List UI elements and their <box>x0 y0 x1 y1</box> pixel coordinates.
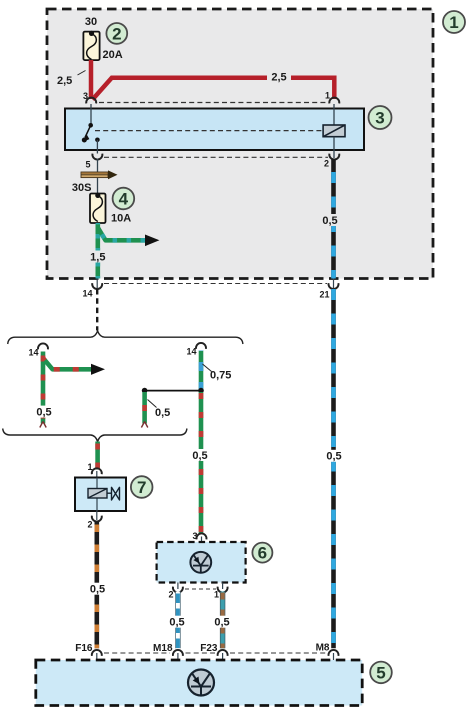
callout circle 4 <box>113 188 135 210</box>
pin 1 connector arc <box>325 91 339 104</box>
svg-text:3: 3 <box>375 109 384 128</box>
svg-text:5: 5 <box>376 663 385 682</box>
label 2,5 left with pointer <box>57 71 86 88</box>
junction bar with node dots <box>142 388 204 394</box>
label 0,5 on black-blue wire inside box U1 <box>321 214 340 227</box>
label 0,75 with pointer <box>203 364 232 382</box>
label 0,5 left branch <box>35 406 54 419</box>
label 1,5 <box>89 251 108 264</box>
svg-text:0,5: 0,5 <box>90 584 105 596</box>
wire blue-white 0,5 to M18 <box>175 592 181 649</box>
svg-text:0,5: 0,5 <box>326 451 341 463</box>
pin 21 connector arc on box U1 <box>319 279 338 300</box>
svg-text:14: 14 <box>82 289 92 299</box>
svg-text:2: 2 <box>112 24 121 43</box>
dashed rail pin2 to pin1 box 6 <box>185 588 216 590</box>
label 0,5 on wire to box 6 <box>191 449 211 462</box>
wire teal-brown 0,5 to F23 <box>220 592 225 649</box>
svg-text:2,5: 2,5 <box>57 75 72 87</box>
merge brace lower <box>3 429 187 442</box>
svg-text:30: 30 <box>85 16 97 28</box>
svg-text:30S: 30S <box>72 182 92 194</box>
pin 3 connector arc lamp box 6 <box>192 531 206 543</box>
wire end fork left <box>40 422 46 428</box>
svg-text:4: 4 <box>119 190 129 209</box>
label 0,5 middle stub with pointer <box>148 400 171 420</box>
wire-destination arrow tan hatched <box>81 170 118 179</box>
pin 14 connector arc on box U1 <box>82 279 102 299</box>
relay coil <box>323 104 345 158</box>
connector F23 <box>200 643 227 661</box>
svg-text:21: 21 <box>319 290 329 300</box>
svg-text:0,75: 0,75 <box>210 370 231 382</box>
relay internal dashed line <box>95 130 322 132</box>
box U1 mounting-block dashed enclosure <box>47 9 433 279</box>
lamp symbol box 6 <box>190 552 211 573</box>
pin 14 left branch connector arc <box>28 343 48 357</box>
connector M8 <box>316 643 339 661</box>
wire red 2,5 from fuse F2 to relay pins 3 and 1 <box>91 60 334 100</box>
svg-text:6: 6 <box>258 544 267 563</box>
callout circle 6 <box>252 543 272 563</box>
wire green-teal branch to arrow <box>98 228 146 241</box>
svg-text:M8: M8 <box>316 643 330 654</box>
wire green-red 0,5 left branch <box>41 352 46 424</box>
callout circle 2 <box>106 23 127 44</box>
svg-text:14: 14 <box>186 347 196 357</box>
svg-text:0,5: 0,5 <box>192 450 207 462</box>
wire end fork middle <box>141 422 147 428</box>
lamp symbol box 5 <box>188 670 214 696</box>
lamp box 6 dashed <box>157 542 246 583</box>
dashed rail connectors F16 M18 F23 M8 <box>104 652 326 654</box>
wire black-blue 0,5 relay pin2 to M8 <box>331 159 336 649</box>
wire green-blue 0,75 right branch <box>199 351 204 391</box>
connector M18 <box>153 643 183 661</box>
svg-text:F16: F16 <box>75 643 93 654</box>
svg-text:14: 14 <box>28 348 38 358</box>
label 0,5 on black-orange wire <box>88 583 108 596</box>
svg-text:7: 7 <box>137 478 146 497</box>
svg-text:2: 2 <box>87 520 92 530</box>
connector F16 <box>75 643 102 661</box>
svg-text:10A: 10A <box>111 213 131 225</box>
svg-text:0,5: 0,5 <box>155 407 170 419</box>
label 2,5 on horizontal wire <box>267 71 291 84</box>
svg-text:2,5: 2,5 <box>271 72 286 84</box>
svg-text:2: 2 <box>168 590 173 600</box>
label 0,5 on blue-white wire <box>168 616 188 629</box>
svg-text:M18: M18 <box>153 643 173 654</box>
wire green-teal 1,5 from fuse F4 to pin 14 <box>96 223 101 279</box>
pin 5 connector arc <box>85 154 102 170</box>
pin 14 right branch connector arc <box>186 343 206 357</box>
lead from pin5 down to fuse F4 <box>97 159 99 194</box>
fuse F2 20A <box>83 31 99 60</box>
svg-text:2: 2 <box>324 159 329 169</box>
pin 2 connector arc valve box <box>87 511 101 530</box>
callout circle 3 <box>369 106 392 129</box>
svg-text:0,5: 0,5 <box>214 617 229 629</box>
relay K box <box>65 109 364 151</box>
svg-text:1,5: 1,5 <box>90 252 105 264</box>
pin 1 connector arc lamp box 6 <box>214 583 228 600</box>
svg-text:1: 1 <box>449 13 458 32</box>
svg-text:1: 1 <box>325 91 330 101</box>
pin 3 connector arc <box>83 91 96 103</box>
wire green-red branch to arrow <box>43 358 92 369</box>
callout circle 5 <box>370 662 392 684</box>
wire green-red 0,5 down to lamp box 6 <box>199 392 204 534</box>
dashed rail pin5 to pin2 <box>104 156 328 158</box>
svg-text:5: 5 <box>85 160 90 170</box>
split brace upper <box>8 331 243 344</box>
svg-text:0,5: 0,5 <box>322 215 337 227</box>
pin 2 connector arc <box>324 154 339 169</box>
label 0,5 on teal-brown wire <box>213 616 233 629</box>
dashed rail pin3 to pin1 <box>99 102 327 104</box>
svg-text:0,5: 0,5 <box>169 617 184 629</box>
dashed bundle wire pin14 to split brace <box>96 289 98 331</box>
relay switch contact <box>82 104 100 154</box>
svg-text:0,5: 0,5 <box>36 406 51 418</box>
svg-text:20A: 20A <box>103 49 123 61</box>
dashed rail pin14 to pin21 <box>104 283 327 285</box>
callout circle 7 <box>131 476 153 498</box>
solenoid valve box 7 <box>75 478 126 512</box>
arrow to other circuit left branch <box>91 364 105 375</box>
fuse F4 10A <box>90 193 106 223</box>
wire black-orange 0,5 valve to F16 <box>95 522 100 649</box>
callout circle 1 <box>443 11 465 33</box>
svg-text:F23: F23 <box>200 643 218 654</box>
wire green-red brace to valve pin 1 <box>95 442 100 470</box>
arrow to other circuit <box>145 235 159 247</box>
label 0,5 on black-blue wire lower <box>325 450 345 463</box>
pin 2 connector arc lamp box 6 <box>168 583 182 600</box>
wire green-red 0,5 middle stub <box>142 392 147 424</box>
pin 1 connector arc valve box <box>87 462 101 478</box>
lamp box 5 dashed <box>36 660 362 706</box>
